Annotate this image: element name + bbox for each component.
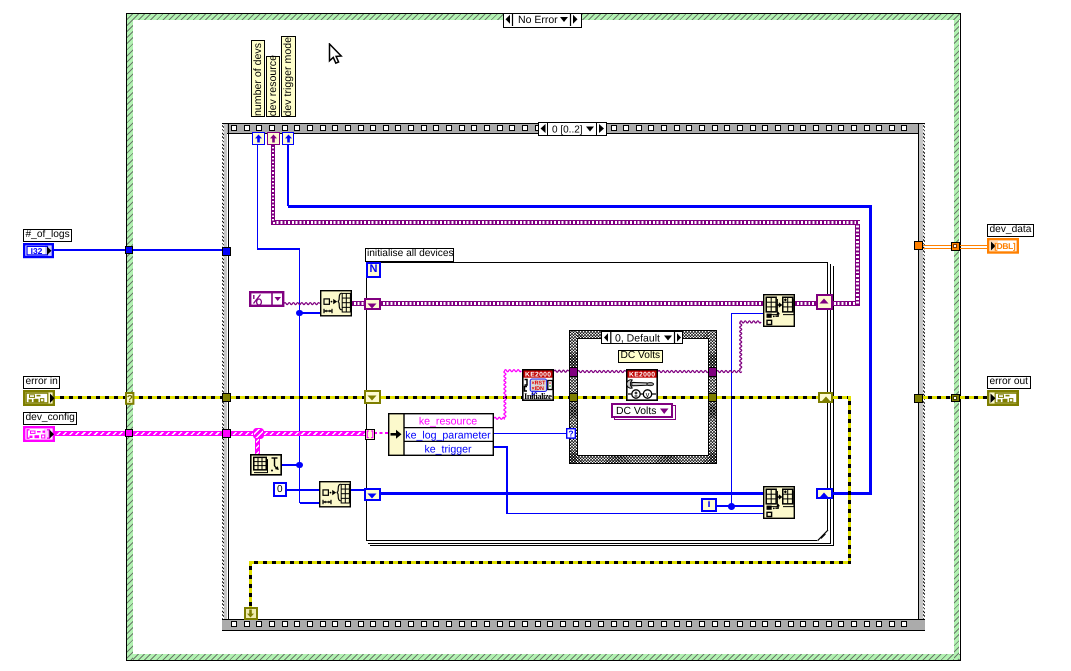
wire ke_resource to init-vi [505, 370, 522, 372]
wire error seg3 [231, 396, 366, 399]
wire error case right [658, 396, 709, 399]
Unbundle By Name ke_resource/ke_log_parameter/ke_trigger [388, 413, 494, 456]
case structure green hatched border left [127, 14, 133, 660]
tunnel blue on sequence border [222, 247, 231, 256]
terminal error out [987, 390, 1020, 406]
for loop label [365, 248, 454, 262]
wire seq-local1 horizontal [257, 248, 300, 249]
terminal dev_config array-of-cluster control [23, 426, 56, 442]
inner case label DC Volts [618, 350, 663, 363]
wire visa array init1 to left SR [352, 301, 365, 306]
case structure (error case) outer black outline [126, 13, 961, 661]
loop iteration i terminal [701, 498, 717, 512]
Replace Array Subset 2 [763, 486, 795, 519]
wire cluster to unbundle [374, 432, 389, 434]
label dev_data [987, 224, 1034, 237]
label error in [23, 376, 60, 389]
terminal error in [23, 390, 56, 406]
sequence local up 1 (number of devs) [252, 132, 264, 145]
svg-text:Initialize: Initialize [524, 391, 552, 401]
wire dev_data line2 [923, 248, 987, 249]
junction dot blue 1 [296, 310, 303, 317]
wire visa seq-local2 down [271, 145, 274, 222]
svg-text:?: ? [127, 394, 133, 405]
label #_of_logs [23, 229, 72, 242]
wire error in seg1 [55, 396, 126, 399]
sequence structure left side band [224, 124, 227, 619]
wire return vertical right [869, 205, 872, 495]
svg-text:ke_resource: ke_resource [419, 415, 477, 427]
wire branch to initialize-array-1 index [300, 312, 320, 313]
wire error down right [848, 396, 851, 564]
sequence film sprocket squares [231, 125, 237, 131]
shift register right purple [816, 294, 833, 310]
KE2000 Configure DC Volts VI [626, 369, 658, 401]
wire visa case interior left [578, 371, 626, 373]
wire seq-local1 down [257, 145, 258, 250]
sequence local up 3 (dev trigger mode) [282, 132, 294, 145]
mouse cursor [328, 43, 344, 66]
Initialize Array 1 [320, 290, 352, 317]
tunnel blue on case border [125, 246, 134, 255]
case structure green hatched border top [127, 14, 960, 20]
wire visa case interior right [658, 371, 708, 373]
wire ke_trigger out [494, 446, 508, 447]
wire error to out seg2 [960, 396, 988, 399]
for loop border [366, 262, 829, 541]
svg-text:[DBL]: [DBL] [994, 241, 1016, 251]
shift register left blue [364, 488, 381, 501]
wire error to out seg1 [923, 396, 952, 399]
wire visa up segment [740, 322, 742, 370]
wire array-size output [282, 464, 299, 465]
wire trunk to initialize-array-2 bottom [300, 502, 319, 503]
shift register right olive [818, 392, 834, 404]
svg-text:KE2000: KE2000 [629, 372, 655, 379]
tunnel orange on sequence border [914, 241, 923, 250]
svg-text:0, Default: 0, Default [615, 332, 660, 343]
wire ke_trigger vertical [506, 446, 507, 513]
KE2000 Initialize VI [522, 369, 554, 401]
case tunnel purple right [708, 367, 717, 377]
case tunnel olive right [708, 393, 717, 403]
wire error bottom long [249, 561, 851, 564]
vertical free label "dev trigger mode" [281, 36, 296, 118]
wire error down left [249, 561, 252, 607]
shift register left olive [364, 390, 381, 404]
case tunnel purple left [569, 367, 578, 377]
wire ke_resource vertical [504, 371, 506, 419]
constant 0 [273, 482, 287, 497]
svg-text:?: ? [568, 429, 573, 439]
inner case selector terminal ? [566, 428, 576, 439]
sequence local down (error) [244, 607, 258, 620]
for loop folded corner [817, 529, 830, 543]
wire visa array replace1 to right SR [795, 301, 817, 306]
wire number-of-devs vertical trunk [299, 248, 300, 503]
Array Size [250, 454, 282, 476]
case structure green hatched border bottom [127, 654, 960, 660]
wire error case to SR [717, 396, 819, 399]
terminal dev_data array-of-DBL indicator [987, 238, 1020, 254]
junction dot blue 2 [296, 462, 303, 469]
wire device array inside loop [381, 492, 764, 495]
wire seq-local3 down [287, 145, 289, 206]
terminal #_of_logs I32 control [23, 243, 54, 259]
wire error inside loop [381, 396, 523, 399]
wire ke_resource out [494, 417, 505, 419]
tunnel olive on sequence border right [914, 394, 923, 403]
sequence structure top film band [222, 123, 925, 134]
wire visa case out [717, 371, 742, 373]
wire 0-constant to initialize-array-2 [286, 489, 319, 490]
loop tunnel dev_config indexing [365, 429, 375, 440]
wire dev_config seg4 [262, 431, 366, 436]
inner case structure (0, Default) [569, 330, 717, 464]
label dev_config [23, 412, 77, 425]
svg-text:KE2000: KE2000 [525, 372, 551, 379]
wire visa to replace-array-1 elem [740, 321, 761, 323]
loop count N terminal [366, 262, 381, 278]
wire error case left [578, 396, 628, 399]
svg-text:ke_log_parameter: ke_log_parameter [405, 429, 491, 441]
sequence structure bottom film band [222, 619, 925, 632]
wire initialize-array-2 output to shift register [351, 489, 366, 492]
svg-text:No Error: No Error [518, 14, 558, 26]
tunnel olive hollow on case border [951, 394, 960, 403]
error case selector terminal ? [125, 392, 135, 405]
tunnel magenta on sequence border [222, 429, 231, 439]
svg-text:0 [0..2]: 0 [0..2] [552, 125, 583, 136]
wire ke_trigger to replace-array-2 [506, 513, 763, 514]
case structure green hatched border right [954, 14, 960, 660]
inner case selector label 0,Default [601, 331, 684, 344]
tunnel magenta on case border [125, 429, 133, 438]
Replace Array Subset 1 [763, 294, 795, 327]
wire visa array return top [271, 220, 860, 225]
wire ke_log_parameter to case selector [494, 433, 567, 434]
tunnel olive on sequence border [222, 393, 231, 402]
sequence selector label 0 [0..2] [538, 122, 607, 136]
svg-text:ke_trigger: ke_trigger [424, 443, 472, 455]
wire index to replace-array-1 [731, 313, 764, 314]
wire dev_config seg2 [133, 431, 223, 436]
vertical free label "dev resource" [266, 56, 281, 118]
wire visa array return vertical [855, 220, 860, 305]
wire dev_config seg1 [55, 431, 127, 436]
junction dev_config [253, 428, 264, 439]
VISA resource name constant [249, 291, 285, 308]
enum DC Volts [611, 403, 673, 418]
wire dev_data line1 [923, 245, 987, 246]
case tunnel olive left [569, 393, 578, 403]
wire error init-vi to case [554, 396, 570, 399]
wire visa array SR out [832, 301, 860, 306]
enum shadow [614, 405, 676, 420]
svg-text:I32: I32 [31, 246, 43, 256]
svg-text:v: v [646, 390, 650, 399]
wire return top horizontal [288, 205, 872, 208]
wire visa array inside loop [381, 301, 764, 306]
wire index vertical [731, 313, 732, 507]
shift register right blue [816, 488, 833, 500]
for loop stacked shadow lines [830, 264, 831, 544]
wire dev_config branch down [255, 437, 260, 455]
sequence local up 2 (dev resource) [267, 132, 279, 145]
shift register left purple [364, 298, 381, 310]
junction dot blue 3 [728, 503, 735, 510]
tunnel orange hollow on case border [951, 242, 960, 251]
vertical free label "number of devs" [251, 40, 266, 118]
wire visa const to initialize-array-1 [284, 303, 320, 305]
wire error SR out [833, 396, 850, 399]
wire i terminal to junction [717, 505, 763, 506]
Initialize Array 2 [319, 481, 351, 508]
sequence structure right side band [918, 124, 919, 619]
wire visa init-vi to case [554, 370, 569, 372]
case selector label No Error [503, 13, 582, 28]
wire loop SR out right [832, 492, 872, 495]
wire #_of_logs to sequence tunnel [54, 249, 222, 250]
label error out [987, 376, 1031, 389]
wire error seg2 [134, 396, 223, 399]
wire dev_config seg3 [231, 431, 255, 436]
